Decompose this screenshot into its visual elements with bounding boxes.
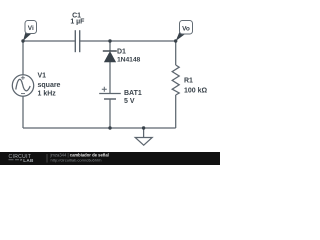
ground (135, 138, 152, 146)
wire top net C1 to Vo corner (80, 40, 176, 42)
wire bottom net (23, 127, 176, 129)
wire left branch upper (node Vi to V1 top) (22, 41, 24, 75)
node ground junction dot (142, 126, 145, 129)
svg-text:5 V: 5 V (124, 98, 135, 105)
wire middle branch top (node to D1 cathode) (109, 41, 111, 52)
svg-text:1 kHz: 1 kHz (38, 91, 57, 98)
label D1 value (117, 49, 141, 64)
wire ground stub (143, 128, 145, 138)
wire right branch lower (R1 to bottom net) (175, 95, 177, 128)
wire middle branch BAT1 to bottom net (109, 99, 111, 128)
svg-text:BAT1: BAT1 (124, 90, 142, 97)
capacitor C1 (75, 30, 79, 52)
battery BAT1 (99, 87, 121, 99)
svg-text:Vi: Vi (28, 25, 34, 32)
svg-text:D1: D1 (117, 49, 126, 56)
node BAT1 bottom junction dot (108, 126, 111, 129)
svg-text:http://circuitlab.com/c6u6hhh: http://circuitlab.com/c6u6hhh (51, 158, 102, 163)
resistor R1 (172, 65, 179, 95)
svg-text:V1: V1 (38, 73, 47, 80)
voltage source V1 (12, 75, 33, 96)
wire right branch upper (Vo corner to R1) (175, 41, 177, 65)
node Vi flag (23, 21, 37, 42)
wire middle branch D1 anode to BAT1 (109, 62, 111, 94)
wire top net Vi-C1 (23, 40, 75, 42)
svg-text:Vo: Vo (182, 26, 190, 33)
label C1 value (70, 13, 85, 26)
node D1 top junction dot (108, 39, 111, 42)
node Vo flag (176, 21, 193, 42)
svg-text:R1: R1 (184, 78, 193, 85)
label R1 value (184, 78, 208, 95)
svg-text:1 µF: 1 µF (70, 19, 85, 26)
label V1 value (38, 73, 61, 98)
svg-text:100 kΩ: 100 kΩ (184, 88, 208, 95)
svg-text:square: square (38, 82, 61, 89)
label BAT1 value (124, 90, 142, 105)
svg-text:LAB: LAB (23, 158, 34, 163)
node Vo junction dot (174, 39, 177, 42)
footer watermark bar (0, 152, 220, 165)
node Vi junction dot (21, 39, 24, 42)
diode D1 (103, 51, 117, 62)
svg-text:1N4148: 1N4148 (117, 57, 141, 64)
wire left branch lower (V1 bottom to bottom net) (22, 96, 24, 128)
